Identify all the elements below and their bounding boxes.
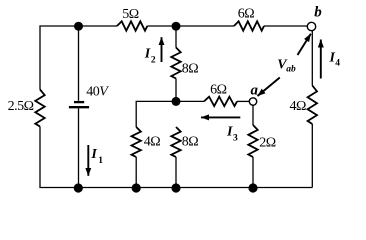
svg-text:40V: 40V [86,85,109,100]
wire top-middle segment [147,25,234,27]
arrow I3 [201,116,240,118]
wire battery bottom lead [78,108,80,187]
wire battery top lead [78,26,80,101]
junction dot top mid [172,22,181,31]
junction dot bottom 2ohm [248,183,257,192]
resistor R 2.5ohm [35,90,44,127]
svg-text:I: I [144,47,151,62]
resistor R 6ohm top [234,21,264,30]
wire 4ohm bottom lead [135,157,137,188]
wire top-left segment [40,26,117,90]
wire 8ohm bottom lead [175,157,177,188]
arrow I1 [87,145,89,176]
wire top-right segment [264,25,307,27]
junction dot middle node [172,97,181,106]
resistor R 4ohm right [308,86,317,125]
wire node-b bottom lead [311,31,313,86]
resistor R 5ohm [117,21,147,30]
resistor R 6ohm middle [204,97,237,106]
svg-text:6Ω: 6Ω [238,7,255,22]
wire right-bottom lead [311,124,313,188]
wire left-bottom segment [40,127,312,188]
svg-text:2: 2 [151,56,156,66]
svg-text:8Ω: 8Ω [182,62,199,77]
junction dot bottom 4ohm [132,183,141,192]
wire middle horizontal left segment [136,101,204,127]
svg-text:5Ω: 5Ω [122,7,139,22]
svg-text:8Ω: 8Ω [182,135,199,150]
svg-text:a: a [251,83,259,99]
wire 2ohm bottom lead [252,157,254,188]
battery V1 40V short plate [74,101,84,103]
wire mid-vertical to middle node [175,79,177,102]
svg-text:4: 4 [335,59,340,69]
arrow Vab toward node a [258,78,280,97]
junction dot top battery [74,22,83,31]
svg-text:4Ω: 4Ω [144,135,161,150]
svg-text:2Ω: 2Ω [259,136,276,151]
svg-text:4Ω: 4Ω [290,99,307,114]
wire mid-vertical upper lead [175,26,177,48]
junction dot bottom 8ohm [171,183,180,192]
resistor R 2ohm [248,125,257,157]
svg-text:ab: ab [286,65,296,75]
arrow Vab toward node b [298,34,311,55]
junction dot bottom battery [74,183,83,192]
arrow I4 [320,40,322,79]
resistor R 8ohm upper [171,48,180,79]
svg-text:I: I [90,147,97,162]
resistor R 8ohm lower [171,127,180,157]
wire middle horizontal right segment [237,100,249,102]
svg-text:I: I [226,125,233,140]
svg-text:b: b [314,5,322,21]
resistor R 4ohm left [132,127,141,157]
node a terminal circle [249,98,256,105]
arrow I2 [161,37,163,62]
node b terminal circle [307,22,315,30]
svg-text:2.5Ω: 2.5Ω [8,99,34,114]
svg-text:1: 1 [98,156,103,166]
battery V1 40V long plate [69,106,89,108]
svg-text:6Ω: 6Ω [210,83,227,98]
wire node-a top lead [252,105,254,125]
svg-text:3: 3 [233,134,238,144]
